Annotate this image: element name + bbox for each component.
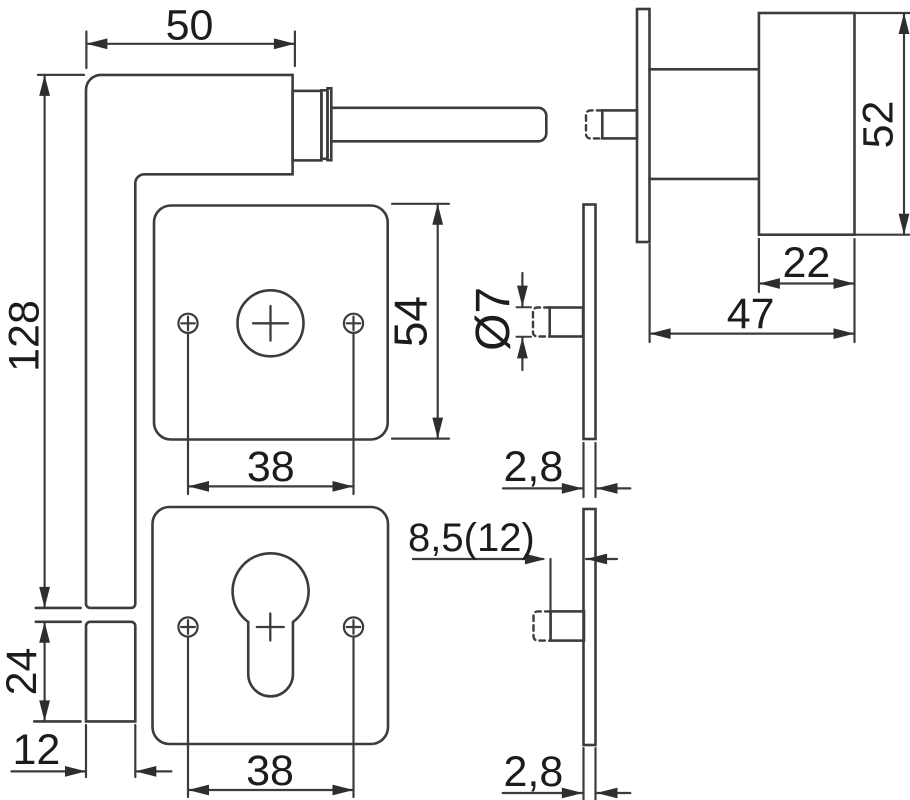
- svg-text:38: 38: [246, 747, 294, 795]
- 50 dimension line: [86, 43, 295, 45]
- 50 extension right: [294, 32, 296, 67]
- 52 extension top: [856, 12, 910, 14]
- collar: [321, 90, 327, 159]
- screw extension line right: [352, 638, 354, 797]
- label O7: [467, 287, 520, 351]
- handle bottom tick: [34, 720, 80, 723]
- svg-text:8,5(12): 8,5(12): [408, 516, 535, 560]
- svg-text:Ø7: Ø7: [467, 287, 520, 351]
- grip block: [759, 13, 855, 235]
- screw stub dashed end (bottom): [534, 611, 551, 640]
- 12 extension lines: [85, 725, 87, 777]
- neck: [293, 91, 322, 160]
- 22 dimension line: [759, 282, 855, 284]
- svg-text:52: 52: [855, 101, 903, 149]
- plate of bottom rosette: [584, 509, 596, 745]
- handle rose plate: [637, 9, 650, 242]
- svg-text:50: 50: [166, 2, 214, 50]
- plate extension lines below: [582, 748, 584, 800]
- plate extension lines below: [582, 443, 584, 497]
- 54 dimension line: [437, 204, 439, 439]
- 22 extension right: [853, 239, 855, 342]
- handle lower bar piece: [86, 622, 135, 722]
- rosette 1 centre cross: [253, 306, 288, 341]
- screw bottom-left: [178, 617, 197, 636]
- label 52: [855, 101, 903, 149]
- break tick upper: [36, 607, 81, 610]
- rosette 1 centre circle: [238, 290, 304, 356]
- screw extension line right: [352, 335, 354, 495]
- label 54: [385, 296, 437, 347]
- screw stub dashed end: [533, 308, 550, 337]
- leader drop line: [549, 559, 551, 641]
- svg-text:22: 22: [782, 239, 830, 287]
- svg-text:2,8: 2,8: [504, 443, 564, 491]
- right arrow at plate: [586, 558, 617, 560]
- screw bottom-right: [344, 617, 363, 636]
- screw top-right: [344, 314, 363, 333]
- 22 extension left: [758, 239, 760, 292]
- rosette 1: [154, 206, 388, 440]
- screw stub solid (top): [602, 110, 637, 138]
- svg-text:54: 54: [385, 296, 437, 347]
- screw stub solid (O7): [550, 308, 583, 337]
- 54 extension top: [392, 203, 449, 205]
- 52 extension bottom: [856, 234, 910, 236]
- screw stub solid (bottom): [551, 611, 584, 640]
- handle upper L-piece: [86, 75, 293, 608]
- screw stub dashed end (top): [586, 110, 602, 138]
- keyhole cross: [257, 614, 284, 641]
- 47 dimension line: [650, 333, 855, 335]
- 128 top tick: [38, 74, 84, 76]
- 128 dimension line: [43, 75, 45, 608]
- rosette 2: [153, 507, 389, 744]
- label 24: [0, 648, 46, 696]
- svg-text:47: 47: [727, 290, 775, 338]
- svg-text:12: 12: [12, 726, 60, 774]
- break tick lower: [36, 620, 81, 623]
- 50 extension left: [85, 32, 87, 69]
- svg-text:2,8: 2,8: [504, 748, 564, 796]
- svg-text:128: 128: [1, 300, 49, 372]
- spindle: [331, 108, 546, 142]
- screw extension line left: [187, 335, 189, 495]
- 47 extension left: [648, 244, 650, 342]
- svg-text:24: 24: [0, 648, 46, 696]
- screw top-left: [178, 314, 197, 333]
- 52 dimension line: [903, 13, 905, 235]
- 54 extension bottom: [392, 438, 449, 440]
- label 128: [1, 300, 49, 372]
- keyhole: [233, 553, 309, 696]
- neck side view top edge: [650, 68, 759, 71]
- screw extension line left: [187, 638, 189, 797]
- O7 tick top: [517, 306, 532, 308]
- O7 tick bottom: [517, 336, 532, 338]
- 12 dimension lines: [11, 770, 86, 772]
- plate of top rosette: [584, 205, 596, 440]
- neck side view bottom edge: [650, 178, 759, 181]
- svg-text:38: 38: [247, 443, 295, 491]
